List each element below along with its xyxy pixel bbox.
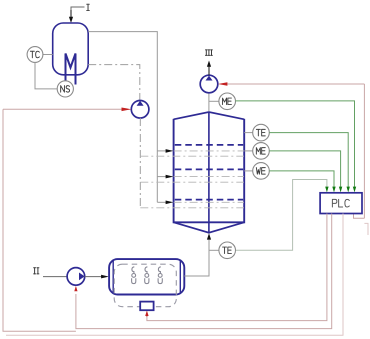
column C1 bottom cone	[174, 222, 245, 232]
instrument ME (column middle)	[244, 150, 253, 152]
wire: feed branch 3 with arrow	[157, 201, 166, 203]
coil 2	[145, 267, 149, 284]
column C1 center shaft	[208, 113, 210, 233]
wire: B1 to pump P1 (dash-dot)	[88, 65, 140, 101]
node III (stream label)	[206, 49, 207, 55]
instrument TE (bottoms)	[219, 242, 236, 259]
wire TC to NS	[35, 62, 57, 89]
wire: TE bottom tap	[209, 249, 219, 251]
wire: red control to P3	[227, 83, 364, 85]
wire: PLC red output bottom bus to pumps	[76, 214, 332, 329]
column C1 roof	[174, 112, 245, 119]
node II (stream label)	[34, 267, 35, 274]
wire: red feed into P1	[3, 108, 123, 110]
wire: P1 down dash-dot	[139, 118, 141, 208]
pump P3 (overhead)	[200, 75, 218, 93]
tray 3	[175, 199, 243, 201]
wire: dash-dot branch c	[140, 207, 244, 209]
instrument NS	[57, 81, 73, 97]
wire: red stub right	[364, 223, 368, 235]
wire: feed branch 2 with arrow	[157, 176, 166, 178]
wire: stream I inlet line	[71, 7, 85, 17]
exchanger W1 shell	[109, 259, 184, 294]
wire: W1 outlet up to column bottom	[184, 239, 209, 276]
wire: dash-dot branch a	[140, 155, 244, 157]
pump P2	[67, 268, 85, 286]
instrument TC	[43, 54, 53, 56]
wire: red branch to pump P1	[3, 109, 76, 331]
instrument WE (column lower)	[244, 170, 253, 172]
wire: ME top tap	[209, 100, 219, 102]
W1 end cap line right	[179, 260, 181, 294]
agitator M inside B1	[66, 54, 76, 85]
column C1 walls and bottom	[174, 119, 245, 222]
wire: feed-through dash-dot level3	[174, 201, 244, 203]
coil 1	[132, 267, 136, 284]
wire: stream III outlet with arrow	[208, 66, 210, 75]
wire: feed-through dash-dot level2	[174, 176, 244, 178]
column C1 body fill	[174, 112, 245, 222]
coil 3	[158, 267, 162, 284]
instrument TE (column upper)	[244, 132, 253, 134]
wire: P2 to exchanger W1 with arrow	[85, 276, 102, 278]
wire: stream II into pump P2	[43, 276, 67, 278]
wire: feed branch 1 with arrow	[157, 150, 166, 152]
wire: green TE to PLC	[269, 133, 348, 188]
wire: B1 to column feed header (solid gray)	[88, 32, 157, 203]
wire: green ME-top to PLC	[236, 101, 355, 188]
tray 1	[175, 144, 243, 146]
tray 2	[175, 168, 243, 170]
W1 dashed heating circuit	[114, 264, 176, 307]
controller PLC	[320, 193, 362, 214]
wire: green ME-mid to PLC	[269, 151, 340, 188]
wire: green WE to PLC	[269, 171, 334, 188]
wire: PLC red output to heater R	[147, 214, 327, 321]
W1 end cap line left	[112, 260, 114, 294]
vessel B1 (stirred tank)	[53, 23, 88, 75]
heater R (small box)	[140, 302, 153, 311]
node I (stream label)	[88, 4, 89, 11]
wire: dash-dot branch b	[140, 181, 244, 183]
pump P1	[131, 101, 149, 119]
wire: green TE-bottom to PLC (light)	[236, 180, 327, 251]
wire: feed-through dash-dot level1	[174, 150, 244, 152]
wire: column top nozzle	[208, 92, 210, 112]
wire: arrow into vessel B1 top	[69, 17, 73, 23]
wire: PLC faint output	[6, 214, 343, 336]
instrument ME (top)	[219, 93, 236, 110]
